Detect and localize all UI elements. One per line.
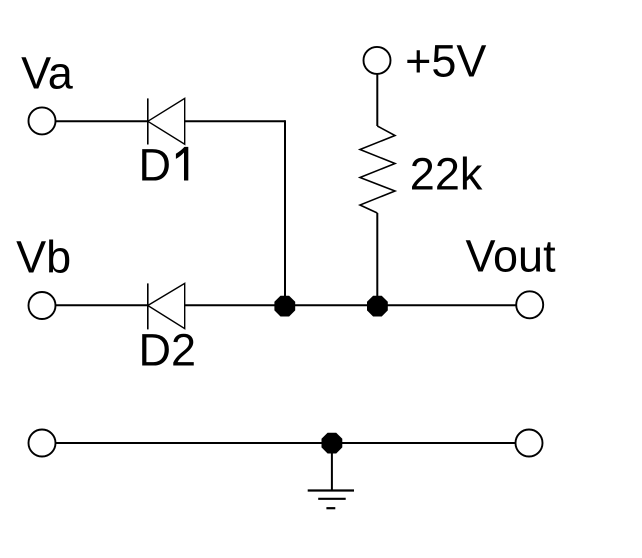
wire Vb to D2 cathode	[56, 304, 149, 306]
terminal Vout	[516, 291, 543, 318]
ground bar 3	[326, 507, 335, 509]
terminal Va	[29, 107, 56, 134]
diode D2 triangle	[148, 283, 185, 328]
svg-text:+5V: +5V	[405, 36, 486, 87]
wire D1 anode to corner	[185, 120, 285, 122]
wire Va to D1 cathode	[56, 120, 149, 122]
junction node resistor/output	[368, 296, 388, 316]
wire +5V to resistor	[376, 74, 378, 126]
terminal Vb	[29, 292, 56, 319]
svg-text:D: D	[139, 140, 172, 191]
svg-text:D2: D2	[139, 324, 197, 375]
svg-text:22k: 22k	[410, 149, 483, 200]
ground stem wire	[331, 447, 333, 491]
wire resistor to output node	[376, 213, 378, 305]
terminal ground left	[29, 430, 56, 457]
junction node diodes	[275, 296, 295, 316]
junction node ground	[322, 433, 342, 453]
resistor R1 22k zigzag	[360, 126, 395, 213]
svg-text:Va: Va	[21, 48, 74, 99]
wire corner down to node	[284, 120, 286, 305]
label D1 digit 1	[176, 147, 188, 181]
diode D1 triangle	[148, 98, 185, 144]
diode D1 cathode bar	[147, 98, 149, 144]
wire D2 anode to Vout terminal	[185, 304, 517, 306]
ground bar 2	[318, 498, 346, 500]
ground rail wire	[56, 442, 516, 444]
terminal +5V	[364, 47, 391, 74]
terminal ground right	[516, 430, 543, 457]
ground bar 1	[308, 489, 354, 491]
svg-text:Vb: Vb	[16, 231, 71, 282]
diode D2 cathode bar	[147, 283, 149, 329]
svg-text:Vout: Vout	[466, 231, 557, 282]
